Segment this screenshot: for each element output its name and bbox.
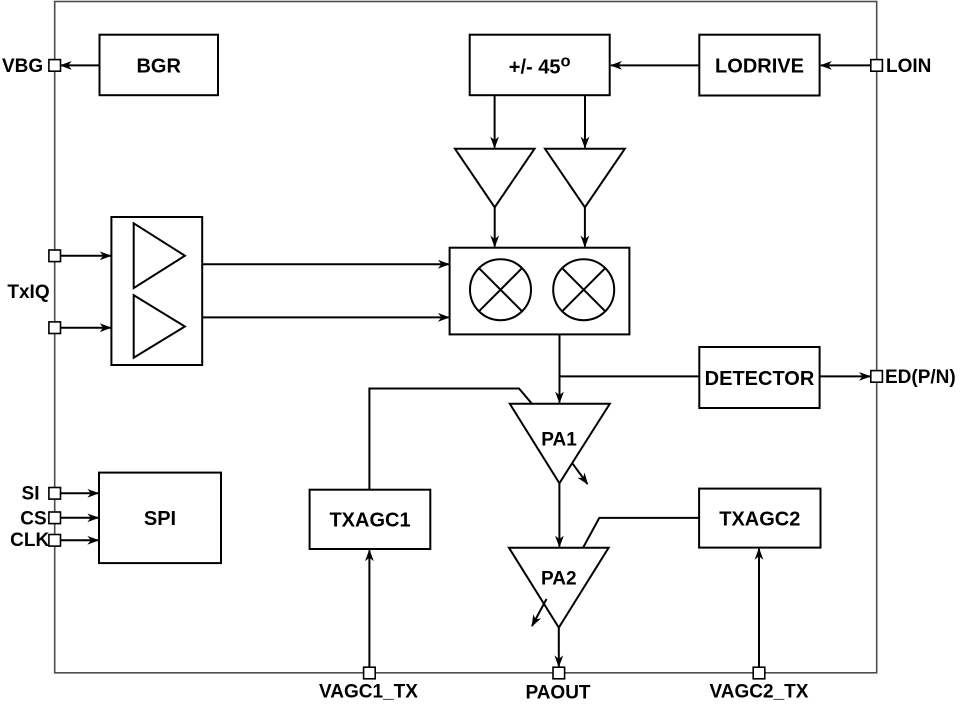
amp PA2 xyxy=(509,548,609,628)
wire CS to SPI xyxy=(61,517,99,519)
wire Q to mixer xyxy=(202,316,449,318)
buffer amp A xyxy=(455,149,535,208)
svg-text:PA1: PA1 xyxy=(541,430,577,451)
buffer amp B xyxy=(545,149,625,208)
svg-text:CS: CS xyxy=(20,509,46,530)
svg-text:ED(P/N): ED(P/N) xyxy=(885,367,956,388)
svg-text:CLK: CLK xyxy=(10,530,49,551)
pin VAGC2_TX xyxy=(710,667,809,702)
wire CLK to SPI xyxy=(61,539,99,541)
wire VAGC2_TX to TXAGC2 xyxy=(758,549,760,667)
svg-text:PA2: PA2 xyxy=(541,569,577,590)
svg-text:SPI: SPI xyxy=(144,508,176,530)
svg-text:BGR: BGR xyxy=(136,56,181,78)
wire LODRIVE to phase shifter xyxy=(611,64,699,66)
svg-text:LODRIVE: LODRIVE xyxy=(715,56,804,78)
wire mixer to PA1 xyxy=(559,334,561,402)
block LODRIVE xyxy=(699,35,819,96)
svg-text:VAGC1_TX: VAGC1_TX xyxy=(319,682,418,703)
wire I to mixer xyxy=(202,263,449,265)
svg-text:TXAGC2: TXAGC2 xyxy=(719,509,800,531)
wire SI to SPI xyxy=(61,492,99,494)
block BGR xyxy=(100,35,219,95)
wire PA1 to PA2 xyxy=(558,483,560,546)
wire TXAGC2 to PA2 xyxy=(583,518,699,548)
wire TXAGC1 to PA1 xyxy=(369,389,532,490)
block TXAGC1 xyxy=(310,490,431,549)
pin VBG xyxy=(2,56,60,77)
pin TxIQ Q xyxy=(49,322,61,334)
pin SI xyxy=(22,484,61,505)
mixer block xyxy=(450,248,630,335)
wire PA2 to PAOUT xyxy=(558,628,560,667)
pin CS xyxy=(20,509,60,530)
svg-text:DETECTOR: DETECTOR xyxy=(705,368,815,390)
pin PAOUT xyxy=(525,667,590,703)
wire DETECTOR to ED pin xyxy=(820,375,870,377)
svg-text:TxIQ: TxIQ xyxy=(7,282,49,303)
pin TxIQ I xyxy=(49,250,61,262)
wire BGR to VBG xyxy=(61,64,100,66)
pin VAGC1_TX xyxy=(319,667,418,702)
wire VAGC1_TX to TXAGC1 xyxy=(368,550,370,667)
block TxIQ input buffers xyxy=(111,217,202,365)
svg-text:VAGC2_TX: VAGC2_TX xyxy=(710,682,809,703)
svg-text:TXAGC1: TXAGC1 xyxy=(329,510,410,532)
mixer M2 xyxy=(553,259,614,320)
wire phase shifter to buffer A xyxy=(494,95,496,147)
wire TxIQ Q input xyxy=(61,327,111,329)
svg-text:SI: SI xyxy=(22,484,40,505)
wire LOIN to LODRIVE xyxy=(821,64,871,66)
block TXAGC2 xyxy=(699,489,820,548)
pin ED(P/N) xyxy=(871,367,956,388)
pin LOIN xyxy=(871,56,932,77)
wire TxIQ I input xyxy=(61,255,111,257)
wire phase shifter to buffer B xyxy=(584,95,586,147)
wire buffer B to mixer xyxy=(584,207,586,246)
amp PA1 xyxy=(510,404,610,484)
mixer M1 xyxy=(470,259,531,320)
PA2 gain arrow xyxy=(532,599,547,626)
wire node to DETECTOR xyxy=(560,375,700,377)
wire buffer A to mixer xyxy=(494,207,496,246)
PA1 gain arrow xyxy=(572,463,588,484)
pin CLK xyxy=(10,530,60,551)
block DETECTOR xyxy=(699,347,819,408)
svg-text:PAOUT: PAOUT xyxy=(525,683,590,704)
svg-text:LOIN: LOIN xyxy=(886,56,931,77)
block +/- 45 phase shifter xyxy=(470,35,610,95)
block SPI xyxy=(99,473,221,563)
svg-text:VBG: VBG xyxy=(2,56,43,77)
